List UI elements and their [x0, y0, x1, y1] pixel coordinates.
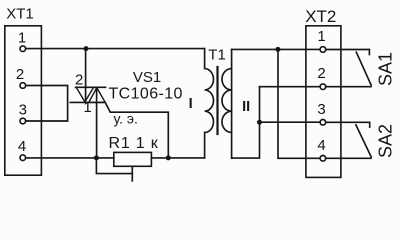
svg-text:4: 4 — [317, 137, 325, 154]
wire branch to XT2-4 — [278, 49, 320, 158]
wire gate of VS1 to node — [105, 102, 168, 157]
triac VS1 right triangle — [89, 88, 105, 103]
junction node gate / R1 / primary bottom — [166, 155, 171, 160]
svg-text:у. э.: у. э. — [114, 110, 138, 126]
svg-text:1: 1 — [317, 28, 325, 45]
wire XT2-4 to SA2 — [326, 157, 371, 159]
triac VS1 bottom bar — [70, 101, 103, 103]
switch SA1 blade — [356, 52, 371, 85]
wire XT2-1 to SA1 fixed contact — [326, 50, 370, 55]
connector XT1 body — [5, 26, 42, 175]
XT1 pin 1 circle — [20, 46, 26, 52]
wire to XT2-3 — [260, 121, 321, 123]
transformer core — [216, 67, 218, 134]
wire XT2-2 jumper down — [259, 87, 261, 123]
XT2 pin 2 circle — [320, 84, 326, 90]
XT1 pin 2 circle — [20, 83, 26, 89]
triac VS1 top bar — [76, 86, 106, 88]
triac VS1 left triangle — [76, 87, 93, 102]
wire R1 tap tie to left node — [96, 158, 132, 174]
wire jumper XT1-2 to XT1-3 — [26, 86, 68, 122]
wire top rail XT1-1 to T1 primary — [26, 48, 205, 50]
svg-text:2: 2 — [317, 65, 325, 82]
resistor R1 tap down — [131, 166, 133, 181]
svg-text:3: 3 — [317, 101, 325, 118]
svg-text:R1 1 к: R1 1 к — [109, 135, 159, 152]
wire secondary bottom to XT2-3 branch — [232, 122, 260, 158]
wire triac lead 1 down — [96, 88, 98, 158]
XT1 pin 4 circle — [20, 155, 26, 161]
svg-text:SA1: SA1 — [375, 52, 395, 86]
svg-text:1: 1 — [83, 99, 91, 116]
svg-text:SA2: SA2 — [375, 124, 395, 158]
svg-text:4: 4 — [18, 138, 26, 155]
transformer T1 secondary winding II — [222, 49, 232, 158]
svg-text:Т1: Т1 — [208, 47, 226, 64]
XT2 pin 3 circle — [320, 120, 326, 126]
XT1 pin 3 circle — [20, 118, 26, 124]
junction node XT2-2 / XT2-3 — [257, 120, 262, 125]
junction node bottom wire / triac cathode — [94, 155, 99, 160]
svg-text:2: 2 — [75, 71, 83, 88]
svg-text:ТС106-10: ТС106-10 — [109, 86, 183, 103]
svg-text:2: 2 — [16, 66, 24, 83]
wire XT2-2 to SA1 — [326, 86, 371, 88]
transformer T1 primary winding I — [205, 49, 214, 158]
svg-text:1: 1 — [18, 29, 26, 46]
wire triac anode 2 lead — [85, 49, 87, 101]
resistor R1 body — [114, 152, 152, 166]
svg-text:II: II — [242, 99, 250, 115]
svg-text:VS1: VS1 — [133, 69, 161, 86]
svg-text:ХТ2: ХТ2 — [305, 7, 336, 26]
junction node top wire / triac — [84, 46, 89, 51]
connector XT2 body — [306, 26, 341, 178]
switch SA2 blade — [356, 125, 371, 157]
svg-text:ХТ1: ХТ1 — [6, 5, 34, 22]
junction node secondary top / XT2-4 branch — [275, 47, 280, 52]
wire bottom rail XT1-4 to R1 — [26, 157, 114, 159]
XT2 pin 4 circle — [320, 156, 326, 162]
wire to XT2-2 — [260, 86, 321, 88]
wire secondary top to XT2-1 — [232, 48, 321, 50]
wire XT2-3 to SA2 fixed contact — [326, 122, 370, 127]
wire R1 right to primary bottom — [151, 157, 204, 159]
XT2 pin 1 circle — [320, 47, 326, 53]
svg-text:I: I — [189, 96, 193, 112]
svg-text:3: 3 — [19, 102, 27, 119]
